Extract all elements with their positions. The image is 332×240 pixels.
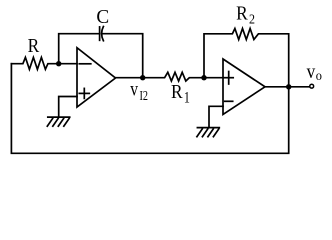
svg-text:o: o xyxy=(316,69,322,84)
svg-text:2: 2 xyxy=(249,13,255,28)
svg-text:v: v xyxy=(307,61,316,83)
svg-text:1: 1 xyxy=(184,90,190,107)
svg-text:R: R xyxy=(171,81,183,103)
svg-text:I2: I2 xyxy=(140,89,149,104)
svg-text:R: R xyxy=(236,3,248,25)
svg-text:v: v xyxy=(130,78,138,100)
svg-text:R: R xyxy=(28,35,40,57)
svg-text:C: C xyxy=(96,6,109,28)
